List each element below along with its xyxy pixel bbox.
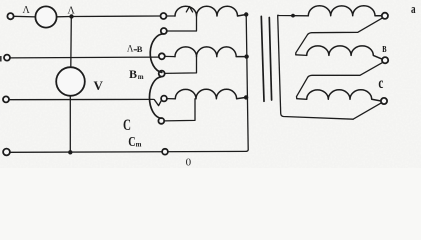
wire to primary coil L1 — [167, 15, 175, 17]
wire phase C — [9, 98, 153, 100]
wire ammeter to node A — [57, 16, 72, 18]
terminal winding3 tap — [158, 118, 164, 124]
svg-text:Λ: Λ — [68, 6, 76, 17]
node delta top junction dot — [291, 14, 295, 18]
terminal winding2 start — [159, 53, 165, 59]
terminal C left — [3, 96, 9, 102]
primary coil L2 — [175, 47, 247, 57]
terminal 0 left — [3, 149, 10, 156]
jumper S3 end to delta return — [353, 103, 381, 119]
wire secondary coil S3 lead-in — [297, 98, 307, 101]
wire secondary coil S2 lead-in — [296, 54, 307, 57]
wire to primary coil L3 — [167, 98, 175, 100]
wire terminal-A to ammeter — [14, 15, 36, 18]
terminal winding1 tap — [161, 28, 167, 34]
wire to primary coil L2 — [165, 55, 175, 57]
node coil2 to bus junction dot — [244, 54, 248, 58]
secondary coil S3 — [307, 90, 381, 101]
v-kink at phase C wire end — [154, 99, 162, 105]
svg-text:V: V — [94, 78, 104, 93]
jumper arc tap1 to tap2 — [150, 34, 163, 73]
terminal winding3 start — [161, 96, 167, 102]
terminal B left — [4, 55, 10, 61]
jumper arc tap2 to tap3 — [149, 77, 161, 119]
wire neutral bus — [246, 15, 248, 152]
terminal c — [381, 98, 387, 104]
wire secondary coil S1 lead-in — [295, 15, 308, 17]
terminal winding1 start — [161, 13, 167, 19]
secondary coil S2 — [307, 46, 382, 59]
svg-text:a: a — [411, 1, 416, 16]
wire neutral bottom — [10, 150, 246, 153]
node coil1 to bus junction dot — [244, 12, 248, 16]
wire voltmeter lower lead — [69, 96, 71, 152]
primary coil L1 — [175, 6, 246, 16]
terminal a — [382, 13, 388, 19]
svg-text:m: m — [136, 141, 142, 149]
wire tap 1 — [167, 16, 197, 31]
secondary coil S1 — [308, 6, 381, 16]
node coil3 to bus junction dot — [244, 95, 248, 99]
wire tap 2 — [165, 57, 197, 74]
wire delta return (secondary) — [278, 15, 353, 119]
ammeter A1 — [35, 6, 56, 27]
jumper S1 end to S2 start — [296, 18, 383, 55]
svg-text:C: C — [123, 117, 131, 134]
wire phase B — [10, 56, 159, 59]
jumper S2 end to S3 start — [297, 62, 383, 98]
terminal winding2 tap — [159, 71, 165, 77]
paper noise — [0, 0, 421, 168]
transformer core line 1 — [261, 16, 264, 101]
svg-text:Λ: Λ — [23, 5, 31, 16]
wire node A to winding terminal — [74, 15, 161, 18]
terminal A left — [7, 13, 13, 19]
primary coil L3 — [175, 89, 246, 99]
svg-text:m: m — [138, 73, 144, 81]
transformer core line 2 — [269, 18, 271, 101]
svg-text:Λ: Λ — [127, 43, 134, 53]
svg-text:B: B — [129, 67, 137, 81]
scan mark left edge — [0, 56, 2, 62]
wire tap 3 — [164, 99, 195, 121]
node A junction dot — [69, 14, 73, 18]
node voltmeter-neutral junction dot — [68, 150, 72, 154]
label A-B hyphen — [134, 49, 136, 51]
wire voltmeter upper lead — [70, 17, 73, 68]
label A mark on coil L1 — [186, 7, 192, 12]
terminal on neutral wire — [162, 149, 168, 155]
svg-text:0: 0 — [186, 157, 192, 168]
svg-text:c: c — [378, 75, 383, 92]
voltmeter V1 — [56, 67, 85, 96]
svg-text:B: B — [137, 44, 143, 54]
terminal b — [382, 57, 388, 63]
svg-text:в: в — [382, 40, 386, 55]
